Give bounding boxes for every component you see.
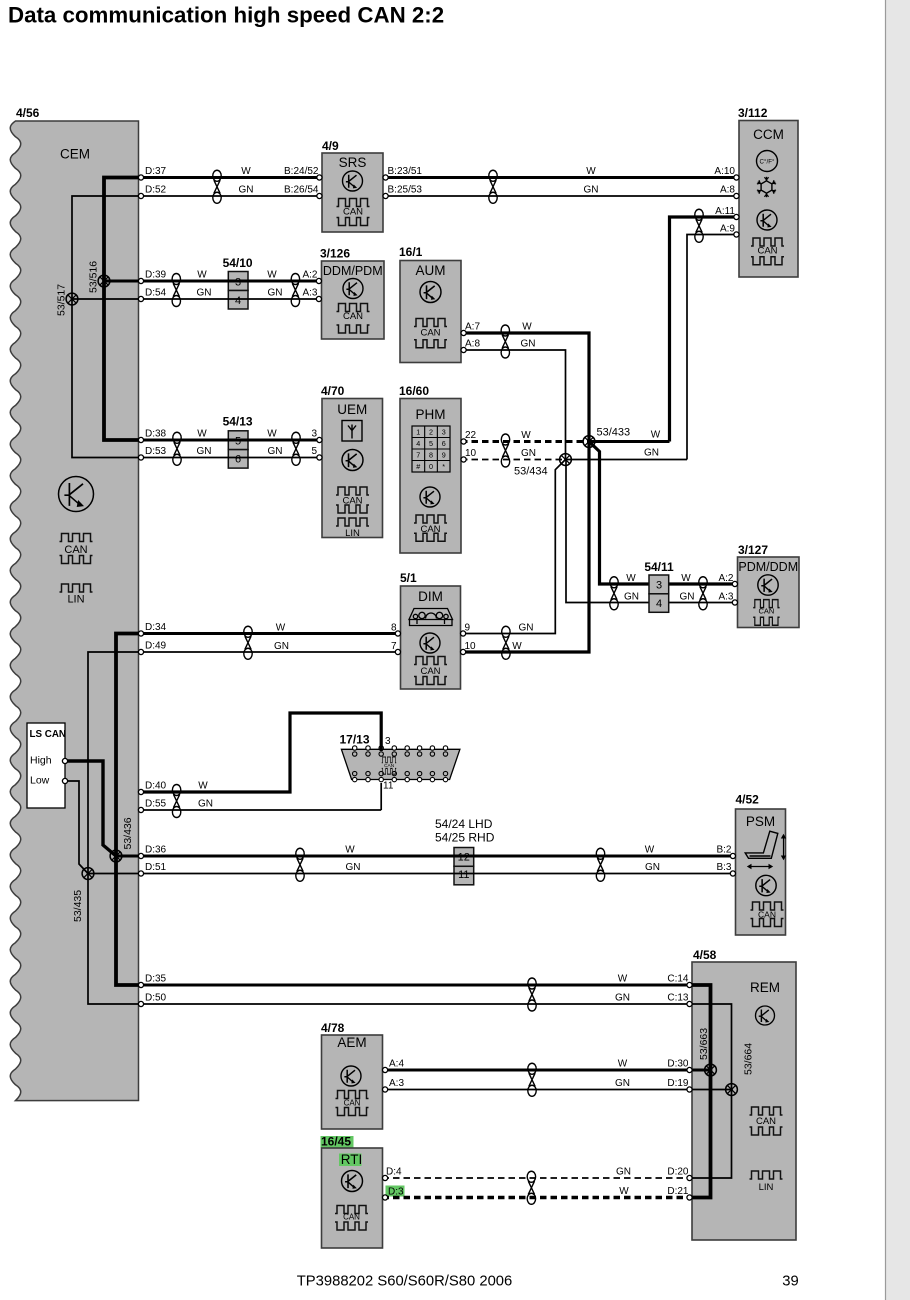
svg-text:5/1: 5/1 (400, 571, 417, 585)
twisted pair symbol (244, 626, 252, 659)
twisted pair symbol (502, 626, 510, 659)
wire D:36 to PSM B:2 (W) (141, 855, 736, 858)
twisted pair symbol (699, 577, 707, 610)
wire 53/434 to DIM pin9 (GN) (461, 460, 566, 634)
svg-text:D:52: D:52 (145, 185, 167, 196)
svg-text:1: 1 (416, 428, 420, 437)
twisted pair symbol (596, 848, 604, 881)
wire CEM internal W bus upper (104, 178, 139, 441)
label 53/436 (122, 817, 134, 849)
svg-text:6: 6 (442, 439, 446, 448)
svg-text:D:40: D:40 (145, 781, 167, 792)
svg-text:22: 22 (465, 430, 477, 441)
svg-text:W: W (241, 166, 251, 177)
svg-text:3: 3 (656, 580, 662, 592)
svg-text:D:38: D:38 (145, 429, 167, 440)
label 16/45 highlight (321, 1136, 354, 1148)
twisted pair symbol (172, 274, 180, 307)
svg-text:W: W (267, 429, 277, 440)
svg-text:3/112: 3/112 (738, 106, 768, 120)
label 53/435 (72, 890, 84, 922)
wire D:38 to UEM pin3 (W) (141, 439, 322, 442)
module PSM 4/52 (736, 809, 786, 935)
twisted pair symbol (527, 1171, 535, 1204)
svg-text:D:39: D:39 (145, 270, 167, 281)
wire LS CAN Low branch (65, 781, 88, 874)
wire 53/433 to CCM branch (W) (589, 440, 670, 443)
svg-text:UEM: UEM (337, 402, 367, 417)
wire RTI D:3 to REM D:21 dashed (W) (383, 1196, 693, 1200)
module SRS 4/9 (322, 153, 383, 232)
wire LS CAN High branch (65, 761, 116, 856)
svg-text:A:3: A:3 (718, 592, 733, 603)
svg-text:LS CAN: LS CAN (30, 729, 66, 740)
svg-text:C°/F°: C°/F° (760, 159, 775, 166)
wire CEM internal GN bus lower (88, 652, 139, 1004)
svg-text:B:25/53: B:25/53 (388, 185, 423, 196)
svg-text:9: 9 (442, 451, 446, 460)
PHM keypad (412, 426, 450, 472)
svg-text:4/78: 4/78 (321, 1021, 345, 1035)
svg-text:3/127: 3/127 (738, 543, 768, 557)
module AEM 4/78 (322, 1035, 383, 1129)
wire D:36 stub (116, 855, 139, 858)
svg-text:LIN: LIN (345, 528, 360, 539)
label 53/663 (698, 1028, 710, 1060)
REM LIN symbol (750, 1171, 783, 1179)
module PHM 16/60 (400, 399, 461, 554)
svg-text:W: W (276, 623, 286, 634)
svg-text:16/45: 16/45 (321, 1135, 351, 1149)
splice 53/434 (560, 454, 572, 466)
wire D:50 to REM C:13 (GN) (141, 1003, 692, 1005)
twisted pair symbol (501, 434, 509, 467)
svg-text:W: W (198, 781, 208, 792)
wire REM internal W bus (692, 985, 711, 1198)
svg-text:LIN: LIN (67, 594, 84, 606)
svg-text:LIN: LIN (759, 1182, 774, 1193)
wire REM D:30 stub (692, 1069, 711, 1072)
svg-text:2: 2 (429, 428, 433, 437)
svg-text:D:34: D:34 (145, 622, 167, 633)
svg-text:A:8: A:8 (720, 185, 735, 196)
svg-text:C:13: C:13 (667, 993, 689, 1004)
twisted pair symbol (501, 325, 509, 358)
svg-text:54/11: 54/11 (644, 560, 674, 574)
svg-text:A:7: A:7 (465, 322, 480, 333)
svg-text:3/126: 3/126 (320, 247, 350, 261)
module PDM/DDM 3/127 (738, 557, 800, 628)
svg-text:12: 12 (458, 852, 470, 864)
svg-text:B:3: B:3 (716, 862, 731, 873)
splice 53/663 (705, 1064, 717, 1076)
svg-text:53/433: 53/433 (597, 427, 631, 439)
module DDM/PDM 3/126 (322, 261, 385, 339)
svg-text:5: 5 (235, 436, 241, 448)
svg-text:4: 4 (235, 295, 241, 307)
svg-text:54/25 RHD: 54/25 RHD (435, 831, 495, 845)
svg-text:GN: GN (519, 623, 534, 634)
17/13 mini CAN symbol (382, 757, 397, 774)
wire SRS B:25/53 to CCM A:8 (GN) (383, 195, 739, 197)
svg-text:W: W (618, 974, 628, 985)
svg-text:W: W (681, 573, 691, 584)
pin terminals (62, 758, 67, 763)
svg-text:A:8: A:8 (465, 339, 480, 350)
LS CAN box (27, 723, 65, 808)
svg-text:W: W (619, 1186, 629, 1197)
PSM seat symbol (745, 831, 786, 869)
svg-text:CAN: CAN (343, 1213, 360, 1222)
svg-text:53/436: 53/436 (122, 817, 134, 849)
wire CEM internal W bus lower (116, 634, 139, 986)
twisted pair symbol (173, 432, 181, 465)
connector 54/13 (228, 431, 248, 450)
svg-text:CCM: CCM (753, 127, 784, 142)
svg-text:53/434: 53/434 (514, 466, 548, 478)
svg-text:W: W (645, 845, 655, 856)
svg-text:D:35: D:35 (145, 974, 167, 985)
svg-text:10: 10 (465, 641, 477, 652)
svg-text:CAN: CAN (344, 1099, 361, 1108)
svg-text:GN: GN (346, 862, 361, 873)
wire AEM A:3 to REM D:19 (GN) (383, 1089, 693, 1091)
svg-text:A:9: A:9 (720, 224, 735, 235)
svg-text:53/664: 53/664 (743, 1043, 755, 1075)
svg-text:CEM: CEM (60, 147, 90, 162)
svg-text:B:23/51: B:23/51 (388, 166, 423, 177)
svg-text:AEM: AEM (337, 1035, 366, 1050)
wire D:40 to 17/13 pin3 (W) (141, 713, 381, 792)
twisted pair symbol (528, 1063, 536, 1096)
svg-text:W: W (345, 845, 355, 856)
svg-text:GN: GN (274, 641, 289, 652)
svg-text:Low: Low (30, 775, 50, 787)
wire D:37 to SRS B:24/52 (W) (141, 176, 322, 179)
svg-text:D:50: D:50 (145, 993, 167, 1004)
svg-text:5: 5 (429, 439, 433, 448)
twisted pair symbol (291, 274, 299, 307)
CEM CAN symbol (60, 534, 93, 564)
svg-text:GN: GN (615, 1078, 630, 1089)
svg-text:GN: GN (521, 339, 536, 350)
svg-text:C:14: C:14 (667, 974, 689, 985)
svg-text:W: W (512, 641, 522, 652)
svg-text:53/435: 53/435 (72, 890, 84, 922)
svg-text:GN: GN (239, 185, 254, 196)
wire REM internal GN bus (692, 1004, 732, 1178)
svg-text:4: 4 (416, 439, 420, 448)
label D:3 highlight (386, 1186, 405, 1197)
svg-text:3: 3 (311, 429, 317, 440)
connector 54/24 (454, 848, 474, 867)
svg-text:16/60: 16/60 (399, 384, 429, 398)
svg-text:AUM: AUM (416, 263, 446, 278)
svg-text:GN: GN (616, 1167, 631, 1178)
svg-text:CAN: CAN (343, 207, 363, 218)
module UEM 4/70 (322, 399, 383, 538)
wire D:39 to DDM/PDM A:2 (W) (141, 280, 322, 283)
svg-text:DDM/PDM: DDM/PDM (323, 264, 383, 278)
svg-text:SRS: SRS (339, 155, 367, 170)
wire D:53 to UEM pin5 (GN) (141, 457, 322, 459)
svg-text:10: 10 (465, 448, 477, 459)
svg-text:RTI: RTI (341, 1152, 363, 1167)
svg-text:D:37: D:37 (145, 166, 167, 177)
twisted pair symbol (610, 577, 618, 610)
twisted pair symbol (528, 978, 536, 1011)
wire D:49 to DIM pin7 (GN) (141, 651, 401, 653)
wire CEM internal GN bus upper (72, 196, 139, 458)
svg-text:A:3: A:3 (302, 288, 317, 299)
svg-text:4/58: 4/58 (693, 948, 717, 962)
wire AUM A:7 (W) down to splice 53/433 (461, 333, 589, 442)
wire SRS B:23/51 to CCM A:10 (W) (383, 176, 739, 179)
module DIM 5/1 (401, 586, 461, 689)
svg-text:GN: GN (268, 288, 283, 299)
svg-text:3: 3 (442, 428, 446, 437)
CEM K symbol (59, 477, 94, 512)
connector 54/10 (228, 272, 248, 291)
label 53/517 (56, 284, 68, 316)
twisted pair symbol (172, 785, 180, 818)
wire D:55 to 17/13 pin11 (GN) (141, 809, 381, 811)
svg-text:GN: GN (197, 446, 212, 457)
svg-text:#: # (416, 462, 420, 471)
svg-text:A:2: A:2 (718, 573, 733, 584)
twisted pair symbol (292, 432, 300, 465)
splice 53/435 (82, 868, 94, 880)
svg-text:D:19: D:19 (667, 1078, 689, 1089)
module CCM 3/112 (739, 121, 798, 278)
svg-text:11: 11 (458, 869, 469, 881)
svg-text:A:3: A:3 (389, 1078, 404, 1089)
svg-text:0: 0 (429, 462, 433, 471)
svg-text:GN: GN (680, 592, 695, 603)
svg-text:W: W (197, 429, 207, 440)
svg-text:D:55: D:55 (145, 799, 167, 810)
svg-text:CAN: CAN (757, 246, 777, 257)
wire PHM pin10 dashed (GN) (461, 459, 566, 461)
wire D:51 to PSM B:3 (GN) (141, 873, 736, 875)
svg-text:D:53: D:53 (145, 446, 167, 457)
svg-text:A:4: A:4 (389, 1059, 404, 1070)
svg-text:*: * (442, 462, 445, 471)
svg-text:CAN: CAN (420, 666, 440, 677)
svg-text:53/516: 53/516 (88, 261, 100, 293)
svg-text:5: 5 (311, 446, 317, 457)
wire 17/13 pin11 down (380, 783, 382, 810)
wire AEM A:4 to REM D:30 (W) (383, 1069, 693, 1072)
svg-text:PDM/DDM: PDM/DDM (738, 560, 798, 574)
svg-text:GN: GN (197, 288, 212, 299)
svg-text:D:54: D:54 (145, 288, 167, 299)
svg-text:4/56: 4/56 (16, 106, 40, 120)
svg-text:6: 6 (235, 454, 241, 466)
svg-text:High: High (30, 755, 52, 767)
svg-text:4/70: 4/70 (321, 384, 345, 398)
wire 53/434 to CCM branch (GN) (566, 459, 688, 461)
twisted pair symbol (695, 209, 703, 242)
module AUM 16/1 (400, 261, 461, 363)
wire D:51 stub (88, 873, 139, 875)
svg-text:A:2: A:2 (302, 270, 317, 281)
svg-text:GN: GN (624, 592, 639, 603)
svg-text:11: 11 (383, 781, 394, 792)
UEM antenna symbol (342, 421, 362, 442)
svg-text:B:2: B:2 (716, 845, 731, 856)
svg-text:3: 3 (235, 277, 241, 289)
CEM control module 4/56 (10, 121, 138, 1101)
label 53/664 (743, 1043, 755, 1075)
svg-text:A:11: A:11 (715, 206, 735, 217)
svg-text:W: W (651, 430, 661, 441)
svg-text:39: 39 (782, 1274, 798, 1290)
svg-text:GN: GN (615, 993, 630, 1004)
svg-text:PSM: PSM (746, 814, 775, 829)
svg-text:Data communication high speed: Data communication high speed CAN 2:2 (8, 2, 444, 27)
svg-text:4/52: 4/52 (736, 793, 760, 807)
svg-text:A:10: A:10 (714, 166, 735, 177)
CCM snowflake symbol (757, 177, 776, 197)
svg-text:17/13: 17/13 (340, 733, 370, 747)
svg-text:CAN: CAN (64, 544, 87, 556)
svg-text:D:20: D:20 (667, 1167, 689, 1178)
label 53/516 (88, 261, 100, 293)
svg-text:W: W (522, 322, 532, 333)
connector 17/13 diagnostic socket (341, 749, 460, 779)
wire D:35 to REM C:14 (W) (141, 984, 692, 987)
svg-text:GN: GN (645, 862, 660, 873)
svg-text:W: W (586, 166, 596, 177)
svg-text:D:51: D:51 (145, 862, 167, 873)
svg-text:7: 7 (416, 451, 420, 460)
wire D:34 to DIM pin8 (W) (141, 632, 401, 635)
svg-text:GN: GN (268, 446, 283, 457)
wire D:54 to DDM/PDM A:3 (GN) (141, 298, 322, 300)
svg-text:W: W (618, 1059, 628, 1070)
CCM temperature symbol (757, 151, 778, 172)
splice 53/516 (98, 275, 110, 287)
svg-text:CAN: CAN (420, 328, 440, 339)
svg-text:B:26/54: B:26/54 (284, 185, 319, 196)
twisted pair symbol (489, 170, 497, 203)
splice 53/433 (583, 436, 595, 448)
twisted pair symbol (296, 848, 304, 881)
splice 53/436 (110, 850, 122, 862)
svg-text:D:4: D:4 (386, 1167, 402, 1178)
connector 54/11 (649, 575, 669, 594)
svg-text:GN: GN (584, 185, 599, 196)
DIM cluster symbol (409, 609, 453, 626)
svg-text:D:21: D:21 (667, 1186, 689, 1197)
svg-text:D:30: D:30 (667, 1059, 689, 1070)
wire 53/434 branch to 54/11 pin4 (GN) (566, 460, 738, 603)
svg-text:8: 8 (429, 451, 433, 460)
svg-text:DIM: DIM (418, 589, 443, 604)
svg-text:53/517: 53/517 (56, 284, 68, 316)
svg-text:54/13: 54/13 (223, 415, 253, 429)
module REM 4/58 (692, 962, 796, 1240)
wire 53/433 down to DIM pin10 (W) (461, 442, 590, 653)
svg-text:D:36: D:36 (145, 845, 167, 856)
svg-text:W: W (626, 573, 636, 584)
svg-text:54/24 LHD: 54/24 LHD (435, 817, 493, 831)
svg-text:W: W (521, 430, 531, 441)
splice 53/664 (726, 1084, 738, 1096)
svg-text:PHM: PHM (416, 407, 446, 422)
svg-text:53/663: 53/663 (698, 1028, 710, 1060)
svg-text:CAN: CAN (758, 607, 774, 616)
svg-text:GN: GN (644, 448, 659, 459)
svg-text:54/10: 54/10 (223, 256, 253, 270)
svg-text:GN: GN (521, 448, 536, 459)
svg-text:B:24/52: B:24/52 (284, 166, 319, 177)
svg-text:4: 4 (656, 598, 662, 610)
svg-text:CAN: CAN (343, 311, 363, 322)
svg-text:3: 3 (385, 736, 391, 747)
wire PHM pin22 dashed (W) (461, 440, 589, 443)
CEM LIN symbol (60, 584, 93, 592)
svg-text:4/9: 4/9 (322, 139, 339, 153)
svg-text:CAN: CAN (756, 1116, 776, 1127)
svg-text:D:49: D:49 (145, 641, 167, 652)
wire 53/433 branch to 54/11 pin3 (W) (589, 442, 738, 585)
wire D:39 stub (104, 280, 139, 283)
svg-text:TP3988202 S60/S60R/S80 2006: TP3988202 S60/S60R/S80 2006 (297, 1274, 513, 1290)
wire D:54 stub (72, 298, 139, 300)
wire D:52 to SRS B:26/54 (GN) (141, 195, 322, 197)
twisted pair symbol (213, 170, 221, 203)
svg-text:REM: REM (750, 980, 780, 995)
splice 53/517 (66, 293, 78, 305)
svg-text:W: W (197, 270, 207, 281)
svg-text:GN: GN (198, 799, 213, 810)
svg-text:16/1: 16/1 (399, 245, 423, 259)
wire AUM A:8 (GN) down to splice 53/434 (461, 350, 566, 460)
wire REM D:19 stub (692, 1089, 732, 1091)
wire CCM A:11 (W) (670, 217, 740, 442)
wire CCM A:9 (GN) (687, 235, 739, 460)
wire RTI D:4 to REM D:20 dashed (GN) (383, 1177, 693, 1179)
svg-text:W: W (267, 270, 277, 281)
